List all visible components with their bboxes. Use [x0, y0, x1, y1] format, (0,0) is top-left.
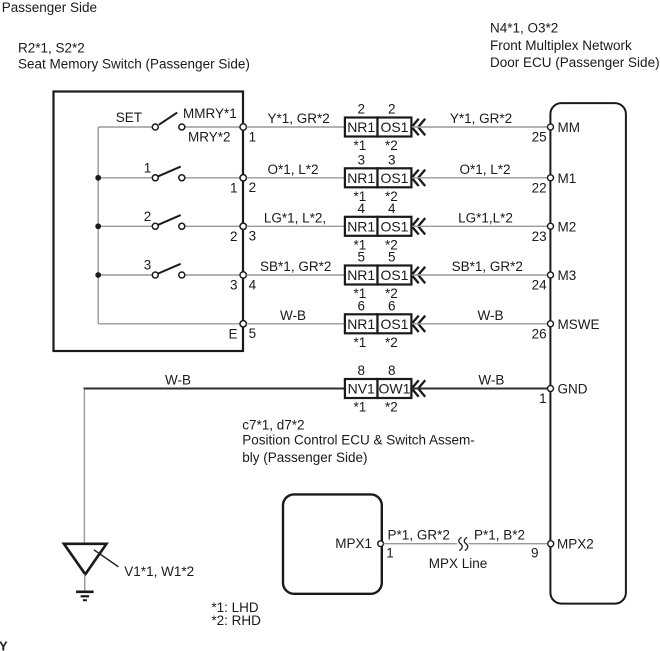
- wire internal bus: [97, 127, 99, 324]
- svg-text:*1: *1: [354, 335, 367, 350]
- svg-text:MSWE: MSWE: [558, 317, 600, 332]
- wire O*1, L*2 (right segment): [412, 177, 547, 179]
- svg-text:8: 8: [358, 363, 366, 378]
- svg-text:3: 3: [388, 152, 396, 167]
- svg-text:*2: RHD: *2: RHD: [211, 613, 261, 628]
- svg-text:P*1, B*2: P*1, B*2: [474, 527, 525, 542]
- junction on bus: [95, 223, 101, 229]
- svg-text:1: 1: [539, 391, 547, 406]
- svg-text:NR1: NR1: [347, 170, 375, 186]
- wire break symbol (MPX line continues): [459, 537, 462, 550]
- svg-text:NV1: NV1: [348, 381, 375, 397]
- svg-text:5: 5: [358, 250, 366, 265]
- wire bus to SET switch contact: [98, 126, 152, 128]
- svg-text:E: E: [228, 326, 237, 341]
- connector NR1/OS1 pair: [345, 168, 378, 187]
- chevron (connector arrows): [412, 316, 426, 332]
- chevron (connector arrows): [412, 119, 426, 135]
- wire down to body ground: [83, 389, 85, 543]
- svg-text:23: 23: [532, 229, 547, 244]
- terminal pin 5 on switch box: [240, 321, 246, 327]
- wire switch to pin 1: [185, 126, 240, 128]
- svg-text:LG*1,L*2: LG*1,L*2: [458, 210, 513, 225]
- ECU terminal M2: [548, 223, 554, 229]
- wire LG*1, L*2, (left segment): [247, 225, 345, 227]
- svg-text:Front Multiplex Network: Front Multiplex Network: [490, 38, 632, 53]
- svg-text:OS1: OS1: [380, 119, 408, 135]
- svg-text:P*1, GR*2: P*1, GR*2: [388, 527, 450, 542]
- svg-text:SB*1, GR*2: SB*1, GR*2: [260, 259, 331, 274]
- junction on bus: [95, 175, 101, 181]
- svg-text:6: 6: [388, 298, 396, 313]
- svg-text:*2: *2: [385, 400, 398, 415]
- svg-text:OW1: OW1: [379, 381, 411, 397]
- svg-text:*1: *1: [354, 138, 367, 153]
- svg-text:4: 4: [388, 201, 396, 216]
- svg-text:N4*1, O3*2: N4*1, O3*2: [490, 21, 558, 36]
- svg-text:1: 1: [230, 180, 238, 195]
- svg-text:MM: MM: [558, 120, 581, 135]
- svg-text:*2: *2: [385, 138, 398, 153]
- svg-text:OS1: OS1: [380, 316, 408, 332]
- ECU terminal MM: [548, 124, 554, 130]
- svg-text:c7*1, d7*2: c7*1, d7*2: [242, 418, 304, 433]
- svg-text:OS1: OS1: [380, 267, 408, 283]
- svg-text:NR1: NR1: [347, 218, 375, 234]
- svg-text:O*1, L*2: O*1, L*2: [267, 162, 318, 177]
- switch contacts and lever: [152, 175, 158, 181]
- svg-text:2: 2: [358, 102, 366, 117]
- svg-text:8: 8: [388, 363, 396, 378]
- wire SB*1, GR*2 (left segment): [247, 274, 345, 276]
- svg-text:NR1: NR1: [347, 119, 375, 135]
- svg-text:*2: *2: [385, 335, 398, 350]
- svg-text:24: 24: [532, 278, 548, 293]
- wire Y*1, GR*2 (right segment): [412, 126, 547, 128]
- svg-text:MMRY*1: MMRY*1: [183, 106, 237, 121]
- chevron (connector arrows): [412, 218, 426, 234]
- svg-text:W-B: W-B: [280, 308, 306, 323]
- terminal pin 3 on switch box: [240, 223, 246, 229]
- svg-text:3: 3: [230, 278, 238, 293]
- svg-text:3: 3: [249, 229, 257, 244]
- svg-text:LG*1, L*2,: LG*1, L*2,: [264, 210, 326, 225]
- svg-text:OS1: OS1: [380, 170, 408, 186]
- svg-text:Seat Memory Switch (Passenger: Seat Memory Switch (Passenger Side): [18, 57, 250, 72]
- wire W-B ground (left segment, black): [84, 388, 345, 390]
- connector NR1/OS1 pair: [345, 217, 378, 236]
- wire bus to switch 1 contact: [98, 177, 152, 179]
- svg-text:M1: M1: [558, 171, 577, 186]
- svg-text:GND: GND: [558, 382, 588, 397]
- svg-text:4: 4: [249, 277, 257, 292]
- svg-text:M2: M2: [558, 219, 577, 234]
- wire switch to pin 4: [185, 274, 240, 276]
- svg-text:R2*1, S2*2: R2*1, S2*2: [18, 40, 85, 55]
- svg-text:5: 5: [249, 326, 257, 341]
- chevron (connector arrows): [412, 267, 426, 283]
- connector NR1/OS1 pair: [345, 118, 378, 137]
- svg-text:*1: *1: [354, 400, 367, 415]
- terminal MPX1: [378, 541, 384, 547]
- switch contacts and lever: [152, 223, 158, 229]
- ground symbol V1/W1: [64, 544, 107, 575]
- wire bus (E) to pin 5: [98, 323, 240, 325]
- svg-text:Y: Y: [0, 639, 8, 651]
- svg-text:SB*1, GR*2: SB*1, GR*2: [452, 259, 523, 274]
- wire W-B (right segment): [412, 323, 547, 325]
- seat memory switch R2/S2 box: [54, 92, 244, 352]
- svg-text:W-B: W-B: [478, 308, 504, 323]
- svg-text:4: 4: [358, 201, 366, 216]
- connector NV1/OW1 pair: [345, 379, 378, 398]
- svg-text:2: 2: [230, 229, 238, 244]
- wire O*1, L*2 (left segment): [247, 177, 345, 179]
- wire P/GR to break: [384, 543, 458, 545]
- wire W-B (left segment): [247, 323, 345, 325]
- svg-text:W-B: W-B: [165, 373, 191, 388]
- wire P/B to ECU: [469, 543, 548, 545]
- position control ECU c7/d7 box: [283, 494, 382, 593]
- door ECU N4/O3 box: [550, 103, 626, 603]
- wire bus to switch 2 contact: [98, 225, 152, 227]
- svg-text:3: 3: [144, 258, 152, 273]
- terminal pin 4 on switch box: [240, 272, 246, 278]
- svg-text:M3: M3: [558, 268, 577, 283]
- terminal pin 1 on switch box: [240, 124, 246, 130]
- svg-text:22: 22: [532, 180, 547, 195]
- chevron (connector arrows): [412, 170, 426, 186]
- svg-text:2: 2: [144, 209, 152, 224]
- wire switch to pin 2: [185, 177, 240, 179]
- svg-text:MPX Line: MPX Line: [429, 556, 488, 571]
- switch contacts and lever: [152, 272, 158, 278]
- connector NR1/OS1 pair: [345, 266, 378, 285]
- svg-text:26: 26: [532, 326, 547, 341]
- svg-text:O*1, L*2: O*1, L*2: [459, 162, 510, 177]
- chevron (connector arrows): [412, 380, 426, 396]
- svg-text:SET: SET: [116, 110, 142, 125]
- svg-text:Y*1, GR*2: Y*1, GR*2: [450, 111, 512, 126]
- svg-text:1: 1: [386, 546, 394, 561]
- switch contacts and lever: [152, 124, 158, 130]
- terminal pin 2 on switch box: [240, 175, 246, 181]
- svg-text:OS1: OS1: [380, 218, 408, 234]
- wire LG*1,L*2 (right segment): [412, 225, 547, 227]
- svg-text:1: 1: [144, 160, 152, 175]
- svg-text:W-B: W-B: [478, 373, 504, 388]
- svg-text:Door ECU (Passenger Side): Door ECU (Passenger Side): [490, 55, 660, 70]
- connector NR1/OS1 pair: [345, 314, 378, 333]
- svg-text:2: 2: [388, 102, 396, 117]
- svg-text:9: 9: [531, 546, 539, 561]
- svg-text:2: 2: [249, 180, 257, 195]
- wire Y*1, GR*2 (left segment): [247, 126, 345, 128]
- svg-text:6: 6: [358, 298, 366, 313]
- svg-text:5: 5: [388, 250, 396, 265]
- svg-text:NR1: NR1: [347, 267, 375, 283]
- svg-text:V1*1, W1*2: V1*1, W1*2: [124, 564, 194, 579]
- wire switch to pin 3: [185, 225, 240, 227]
- svg-text:Passenger Side: Passenger Side: [2, 0, 97, 15]
- ground callout line: [94, 550, 119, 567]
- svg-text:Y*1, GR*2: Y*1, GR*2: [267, 111, 329, 126]
- svg-text:MPX2: MPX2: [557, 537, 594, 552]
- ECU terminal GND: [548, 386, 554, 392]
- wire bus to switch 3 contact: [98, 274, 152, 276]
- junction on bus: [95, 272, 101, 278]
- svg-text:MPX1: MPX1: [335, 536, 372, 551]
- ECU terminal M3: [548, 272, 554, 278]
- svg-text:bly (Passenger Side): bly (Passenger Side): [242, 450, 367, 465]
- svg-text:Position Control ECU & Switch: Position Control ECU & Switch Assem-: [242, 433, 475, 448]
- wire SB*1, GR*2 (right segment): [412, 274, 547, 276]
- svg-text:3: 3: [358, 152, 366, 167]
- ECU terminal M1: [548, 175, 554, 181]
- ECU terminal MPX2: [548, 541, 554, 547]
- svg-text:NR1: NR1: [347, 316, 375, 332]
- ECU terminal MSWE: [548, 321, 554, 327]
- wire W-B ground (right segment, black): [412, 388, 548, 390]
- svg-text:MRY*2: MRY*2: [188, 129, 231, 144]
- svg-text:1: 1: [249, 129, 257, 144]
- svg-text:25: 25: [532, 130, 547, 145]
